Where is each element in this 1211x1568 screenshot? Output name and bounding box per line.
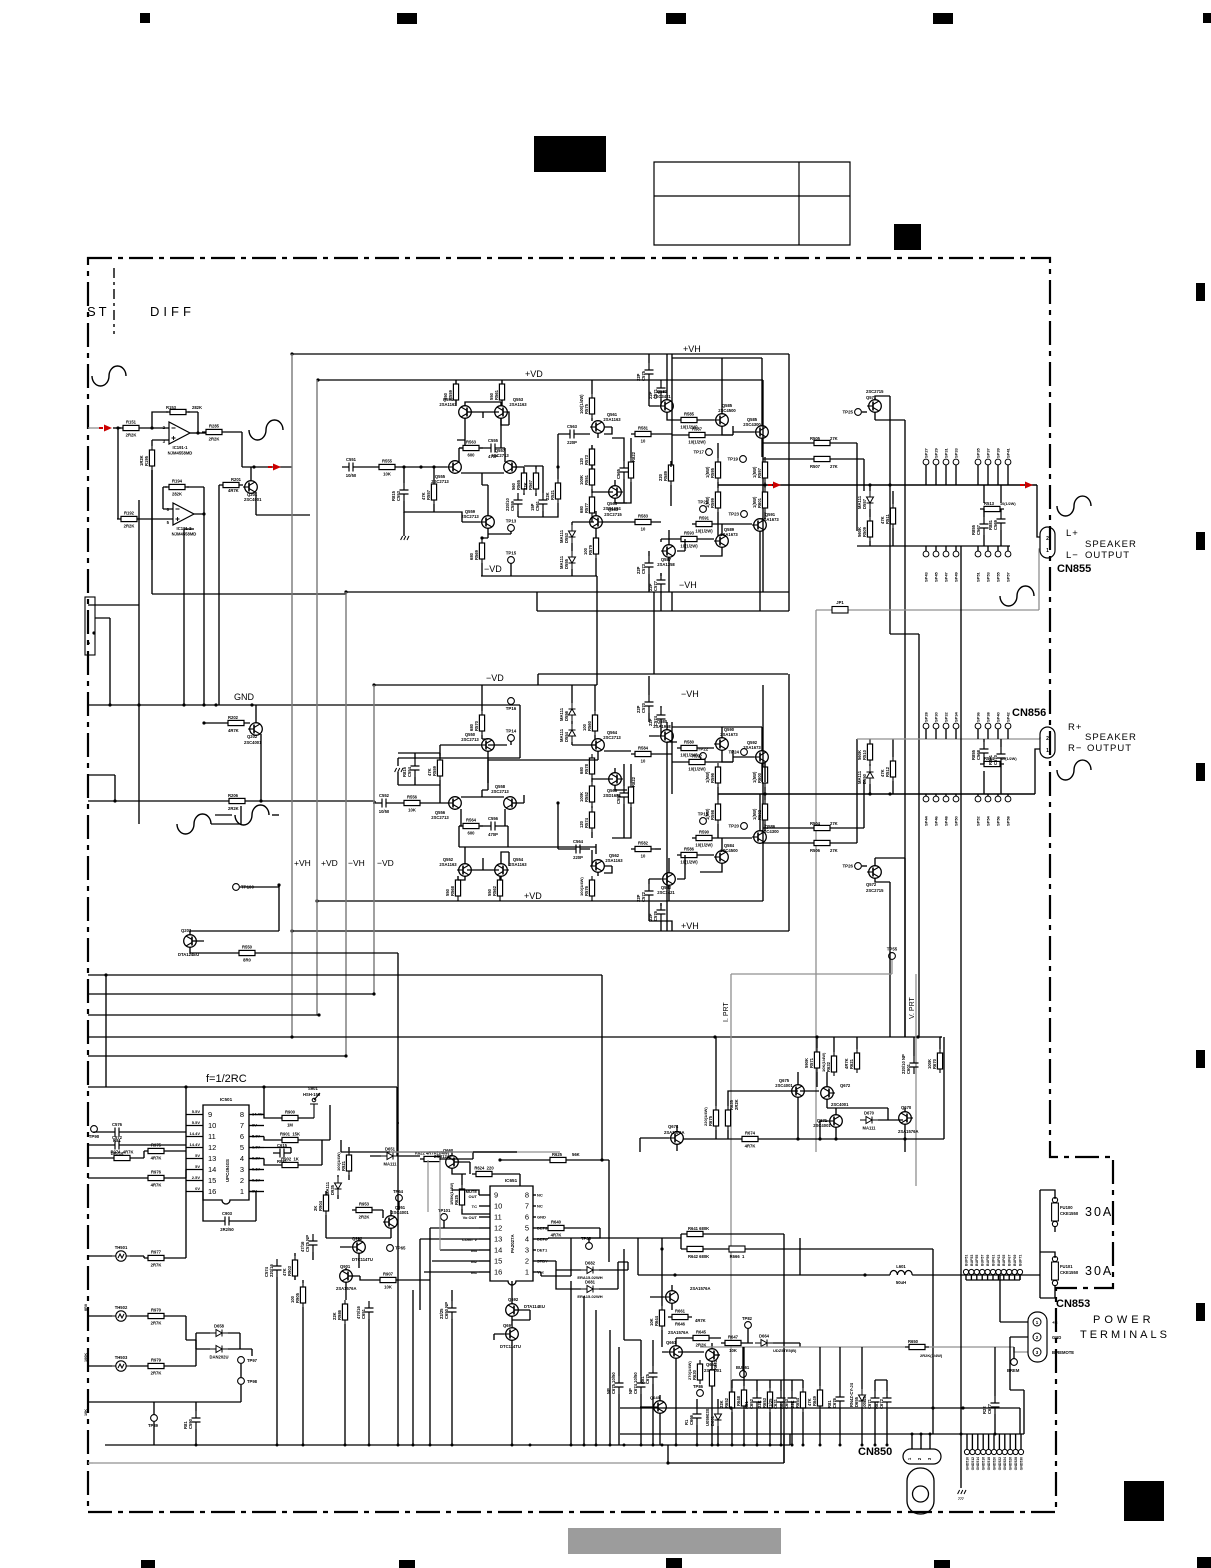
svg-text:R151: R151 (126, 420, 137, 425)
wire 975 drop (601, 975, 603, 1160)
svg-text:RN4Z-CY-J4: RN4Z-CY-J4 (849, 1382, 854, 1407)
svg-text:R587: R587 (692, 427, 703, 432)
svg-text:4R7K: 4R7K (151, 1156, 162, 1161)
wire C674 C675 (619, 1340, 653, 1445)
test point TP14 (508, 735, 515, 742)
diode D664 (755, 1340, 773, 1347)
svg-text:22/25: 22/25 (439, 1308, 444, 1319)
signal flow symbol below CN855 (1000, 586, 1034, 606)
wire R514 cluster (984, 739, 1001, 794)
svg-text:−VD: −VD (486, 673, 504, 683)
svg-text:100: 100 (583, 547, 588, 555)
svg-text:SP49: SP49 (954, 571, 959, 582)
grey wire pwm 1 (427, 1160, 429, 1212)
wire Q592 (733, 727, 762, 782)
L-amp +VH rail (292, 354, 789, 611)
svg-text:22K: 22K (790, 1400, 795, 1408)
svg-text:C553: C553 (396, 490, 401, 501)
connector CN850 body (903, 1449, 941, 1464)
wire pin6 loop (163, 487, 173, 509)
svg-text:D601: D601 (710, 1415, 715, 1426)
test point TP82 (745, 1322, 752, 1329)
svg-text:3: 3 (927, 1457, 932, 1460)
svg-text:R581: R581 (638, 426, 649, 431)
wire CN853 pin2 (1010, 1337, 1028, 1390)
svg-text:R953: R953 (359, 1202, 370, 1207)
svg-text:SP39: SP39 (996, 447, 1001, 458)
capacitor C903 (218, 1217, 236, 1226)
wire Q557 base (512, 467, 524, 475)
svg-text:1: 1 (525, 1268, 529, 1277)
svg-text:C556: C556 (616, 793, 621, 804)
svg-text:Vo OUT: Vo OUT (463, 1215, 478, 1220)
svg-text:220/10: 220/10 (505, 498, 510, 511)
transistor Q552 (457, 864, 471, 877)
resistor R506 (810, 840, 834, 845)
svg-text:MA111: MA111 (559, 728, 564, 742)
capacitor C574 (657, 708, 666, 726)
svg-text:R563: R563 (466, 440, 477, 445)
svg-text:10(1/2W): 10(1/2W) (1000, 502, 1016, 506)
svg-text:POWER: POWER (1093, 1314, 1155, 1326)
svg-text:FU101: FU101 (1060, 1264, 1073, 1269)
svg-text:TP19: TP19 (728, 457, 739, 462)
svg-text:NJM4558MD: NJM4558MD (168, 451, 193, 456)
transistor Q580 (659, 730, 673, 743)
resistor R576 (589, 876, 594, 900)
svg-text:D655: D655 (854, 1396, 859, 1407)
signal flow symbol input (92, 366, 126, 386)
capacitor C554 (411, 759, 420, 777)
wire 27k feeds (763, 443, 864, 531)
svg-text:15P: 15P (530, 503, 535, 511)
svg-text:UPC494GS: UPC494GS (225, 1159, 230, 1182)
wire fuse feed (1039, 1190, 1041, 1298)
svg-text:SP40: SP40 (996, 711, 1001, 722)
svg-text:TH502: TH502 (115, 1305, 128, 1310)
svg-text:BUF69: BUF69 (1013, 1255, 1017, 1266)
test point TP15 (508, 557, 515, 564)
wire TH502 (88, 1316, 186, 1340)
wire prot bottom row (683, 1037, 944, 1139)
svg-text:600: 600 (468, 831, 476, 836)
svg-text:Q691: Q691 (503, 1323, 514, 1328)
svg-text:12: 12 (208, 1143, 216, 1152)
svg-text:1R2K: 1R2K (139, 455, 144, 466)
wire TP82 (747, 1328, 749, 1343)
wire C590 (195, 1402, 197, 1445)
capacitor C675 (615, 1376, 624, 1394)
resistor R625 (459, 1185, 464, 1209)
resistor R556 (400, 800, 424, 805)
wire Q201 emitter (256, 492, 310, 515)
transistor Q663 (664, 1291, 678, 1304)
test point TP97 (238, 1357, 245, 1364)
wire cap column gap (653, 592, 655, 674)
svg-text:−VH: −VH (348, 858, 365, 868)
transistor Q556 (447, 797, 461, 810)
buffer pin header (963, 1269, 968, 1274)
svg-text:10K: 10K (729, 1348, 737, 1353)
wire R584 (604, 751, 672, 754)
wire Q202 (204, 705, 261, 801)
svg-text:10(1/2W): 10(1/2W) (680, 860, 698, 865)
svg-text:680: 680 (469, 552, 474, 560)
svg-text:L601: L601 (896, 1264, 906, 1269)
svg-text:R593: R593 (684, 531, 695, 536)
capacitor C672 (883, 1391, 892, 1409)
test point TP65 (387, 1245, 394, 1252)
svg-text:SP37: SP37 (986, 447, 991, 458)
svg-text:4R7K: 4R7K (228, 488, 239, 493)
transistor Q565 (609, 486, 623, 499)
grey I.PRT column (730, 974, 732, 1408)
svg-text:R570: R570 (474, 720, 479, 731)
svg-text:22K: 22K (523, 482, 528, 490)
svg-text:22K: 22K (719, 1400, 724, 1408)
capacitor C576 (657, 903, 666, 921)
svg-text:4R7K: 4R7K (228, 728, 239, 733)
svg-text:TP18: TP18 (698, 812, 709, 817)
svg-text:5.5V: 5.5V (192, 1120, 201, 1125)
svg-text:SP45: SP45 (934, 571, 939, 582)
svg-text:R979: R979 (151, 1358, 162, 1363)
capacitor C570b (997, 747, 1006, 765)
wire R645b (676, 1337, 721, 1339)
resistor R555 (375, 464, 399, 469)
svg-text:1: 1 (1046, 548, 1049, 554)
svg-text:4R7K: 4R7K (695, 1318, 706, 1323)
svg-text:GND514: GND514 (976, 1457, 980, 1470)
wire border y605 (88, 604, 139, 606)
signal flow symbol near CN855 (1057, 496, 1091, 516)
transistor Q582 (661, 873, 675, 886)
resistor R201 (219, 482, 243, 487)
wire vertical col 610 (609, 1330, 611, 1445)
L-amp lower rail (537, 592, 789, 611)
svg-text:R206: R206 (228, 793, 239, 798)
red flow arrow input (99, 425, 112, 432)
main output rail L (718, 484, 1037, 486)
svg-text:SP35: SP35 (976, 447, 981, 458)
power rail +VD column (316, 380, 318, 1015)
svg-text:TP24: TP24 (729, 750, 740, 755)
wire (672, 748, 733, 794)
wire R575 (591, 380, 593, 522)
svg-text:SP57: SP57 (1006, 571, 1011, 582)
svg-text:BUF63: BUF63 (997, 1255, 1001, 1266)
svg-text:4: 4 (240, 1154, 244, 1163)
svg-text:SP46: SP46 (934, 815, 939, 826)
svg-text:R507: R507 (810, 464, 821, 469)
svg-text:8: 8 (525, 1191, 529, 1200)
resistor R600 (762, 763, 767, 787)
wire (649, 879, 672, 931)
svg-text:100(1/4W): 100(1/4W) (579, 394, 584, 414)
svg-text:10K: 10K (383, 472, 391, 477)
wire (701, 358, 733, 435)
resistor R625b (546, 1157, 570, 1162)
svg-text:SP47: SP47 (944, 571, 949, 582)
svg-text:R650: R650 (908, 1339, 919, 1344)
diode D601 (715, 1408, 722, 1426)
wire (592, 866, 612, 901)
svg-text:R506: R506 (810, 848, 821, 853)
svg-text:2SC2715: 2SC2715 (866, 389, 884, 394)
resistor R822 (628, 458, 633, 482)
svg-text:C903: C903 (222, 1211, 233, 1216)
transistor Q555 (447, 461, 461, 474)
connector stub left edge (85, 597, 95, 655)
capacitor C675b (649, 1366, 658, 1384)
svg-text:30A: 30A (1085, 1264, 1113, 1278)
resistor R597 (762, 458, 767, 482)
wire Q565 (592, 480, 627, 503)
resistor R907 (376, 1277, 400, 1282)
wire Q672 (798, 1072, 827, 1139)
wire vertical col 341 (341, 1140, 517, 1152)
svg-text:R595: R595 (710, 467, 715, 478)
wire Q585b (733, 358, 762, 457)
svg-text:R559: R559 (432, 765, 437, 776)
svg-text:TP20: TP20 (729, 824, 740, 829)
resistor R591 (692, 521, 716, 526)
capacitor C577 (657, 573, 666, 591)
wire (398, 753, 440, 803)
svg-text:D553: D553 (564, 532, 569, 543)
svg-text:10: 10 (641, 854, 646, 859)
svg-text:10K: 10K (408, 808, 416, 813)
wire sensor rows (88, 1132, 186, 1178)
svg-text:470/16: 470/16 (356, 1306, 361, 1319)
svg-text:16: 16 (494, 1268, 502, 1277)
capacitor C556b (484, 822, 502, 831)
svg-text:R670: R670 (932, 1058, 937, 1069)
resistor R574 (589, 808, 594, 832)
inductor L601 (890, 1271, 912, 1276)
svg-text:TC: TC (472, 1204, 477, 1209)
resistor R550b (235, 950, 259, 955)
svg-text:C551: C551 (346, 457, 357, 462)
svg-text:2SC4001: 2SC4001 (244, 497, 262, 502)
wire vertical col 413 (412, 1290, 414, 1445)
svg-text:Q672: Q672 (840, 1083, 851, 1088)
fuse FU100 (1052, 1197, 1059, 1226)
svg-text:GND522: GND522 (998, 1457, 1002, 1470)
wire R582 (631, 848, 661, 850)
wire Q563 (572, 511, 596, 540)
wire (326, 1147, 349, 1238)
wire R648 (743, 1347, 745, 1445)
resistor R976 (144, 1175, 168, 1180)
svg-text:1: 1 (1036, 1320, 1039, 1325)
svg-text:TP26: TP26 (843, 864, 854, 869)
svg-text:SP38: SP38 (986, 711, 991, 722)
svg-text:100K: 100K (579, 475, 584, 485)
svg-text:10: 10 (641, 527, 646, 532)
svg-text:R585: R585 (684, 412, 695, 417)
svg-text:C676: C676 (832, 1397, 837, 1408)
wire R625b row (500, 1160, 609, 1262)
svg-text:R521: R521 (550, 489, 555, 500)
svg-text:R555: R555 (382, 459, 393, 464)
wire s901 feed (396, 1087, 398, 1156)
wire C563 (558, 427, 612, 467)
wire R513 cluster (984, 485, 1001, 546)
svg-text:282K: 282K (172, 492, 182, 497)
svg-text:550: 550 (489, 392, 494, 400)
svg-text:R−: R− (1068, 743, 1082, 754)
test point TP20 (741, 823, 748, 830)
bus junction dots (195, 1444, 198, 1447)
svg-text:560K: 560K (857, 527, 862, 537)
speaker jumpers SP44 SP46 SP48 SP50 (923, 796, 929, 802)
speaker jumpers SP43 SP45 SP47 SP49 (923, 551, 929, 557)
svg-text:R647: R647 (728, 1335, 739, 1340)
svg-text:TP82: TP82 (742, 1316, 753, 1321)
registration mark right 3 (1196, 763, 1205, 781)
wire input line (113, 427, 121, 429)
wire diodes R (571, 685, 573, 745)
resistor R564 (459, 823, 483, 828)
svg-text:C559: C559 (510, 500, 515, 511)
svg-text:C570: C570 (641, 702, 646, 713)
diode D682 (581, 1267, 599, 1274)
capacitor C556r (620, 786, 629, 804)
wire fb2 (272, 814, 279, 816)
wire fb1 (211, 806, 241, 824)
svg-text:R504: R504 (810, 821, 821, 826)
svg-text:R645: R645 (696, 1330, 707, 1335)
registration mark right 2 (1196, 532, 1205, 550)
svg-text:R201: R201 (231, 477, 242, 482)
wire R201 left (218, 485, 220, 705)
wire D670 Q670 (848, 1108, 905, 1139)
svg-text:220/10 NP: 220/10 NP (901, 1054, 906, 1074)
resistor R649 (817, 1386, 822, 1410)
svg-text:2: 2 (1046, 536, 1049, 542)
wire D601 gnd link (667, 1445, 669, 1463)
svg-text:10: 10 (494, 1202, 502, 1211)
transistor Q672 (821, 1087, 835, 1100)
svg-text:R577: R577 (584, 502, 589, 513)
wire Q901 R907 (346, 1268, 430, 1300)
resistor R593 (677, 536, 701, 541)
svg-text:2R2K(1/4W): 2R2K(1/4W) (920, 1353, 943, 1358)
wire diff emitters (459, 461, 505, 485)
test point BREM (1011, 1359, 1018, 1366)
resistor R153 (166, 409, 190, 414)
svg-text:TP13: TP13 (506, 519, 517, 524)
wire TP85 (585, 1228, 600, 1242)
wire TP100 (240, 885, 279, 887)
svg-text:1(5W): 1(5W) (705, 466, 710, 478)
svg-text:100: 100 (582, 723, 587, 731)
wire vertical col 624 (624, 1249, 641, 1340)
wire mirror collectors (457, 418, 501, 448)
jumper JP1 (832, 607, 848, 614)
wire D557 chain (869, 485, 871, 546)
wire R579 (595, 558, 597, 576)
svg-text:C572: C572 (112, 1135, 123, 1140)
resistor R666 (729, 1246, 745, 1252)
test point TP19 (740, 456, 747, 463)
svg-text:C574: C574 (264, 1266, 269, 1277)
svg-text:BUF61: BUF61 (991, 1255, 995, 1266)
wire (649, 676, 661, 736)
svg-text:−VH: −VH (681, 689, 699, 699)
svg-text:100K: 100K (84, 1353, 88, 1362)
resistor R640 (544, 1225, 568, 1230)
wire Q992 (340, 1238, 359, 1268)
resistor R675 (713, 1106, 718, 1130)
wire Q692 (512, 1281, 530, 1326)
svg-text:R641 680K: R641 680K (688, 1226, 709, 1231)
svg-text:CN850: CN850 (858, 1446, 892, 1458)
resistor R521 (555, 479, 560, 503)
wire ic501 feed right (263, 1087, 265, 1115)
wire long vertical C (799, 1238, 801, 1275)
resistor R504 (810, 825, 834, 830)
wire diodes (571, 522, 573, 576)
svg-text:680: 680 (579, 766, 584, 774)
svg-text:1: 1 (1046, 748, 1049, 754)
ground pin header (964, 1449, 969, 1454)
svg-text:SP56: SP56 (996, 815, 1001, 826)
transistor Q202 (248, 723, 262, 736)
resistor R921 (346, 1151, 351, 1175)
svg-text:SP33: SP33 (954, 447, 959, 458)
svg-text:2SC2713: 2SC2713 (461, 737, 479, 742)
svg-text:R822: R822 (631, 776, 636, 787)
transistor Q553 (495, 406, 509, 419)
test point TP55 (889, 953, 896, 960)
svg-text:C575: C575 (641, 370, 646, 381)
svg-text:R567: R567 (528, 479, 533, 490)
svg-text:BUF59: BUF59 (986, 1255, 990, 1266)
wire BUF61 (742, 1347, 744, 1371)
IC501 body (203, 1105, 249, 1204)
wire (459, 826, 508, 847)
resistor R599 (715, 488, 720, 512)
svg-text:C568: C568 (976, 749, 981, 760)
svg-text:100/16: 100/16 (862, 1396, 867, 1409)
resistor R970 (144, 1313, 168, 1318)
wire Q571 leads (875, 396, 905, 1037)
diode D550 (867, 766, 874, 784)
svg-text:NC: NC (537, 1204, 543, 1209)
transistor Q203 (184, 935, 198, 948)
svg-text:2R2K: 2R2K (124, 524, 135, 529)
svg-text:2SB1243: 2SB1243 (434, 1154, 452, 1159)
test point TP16 (508, 698, 515, 705)
svg-text:100: 100 (290, 1295, 295, 1303)
svg-text:5: 5 (240, 1143, 244, 1152)
capacitor C677 (991, 1396, 1000, 1414)
svg-text:TP97: TP97 (247, 1358, 258, 1363)
svg-text:R654: R654 (795, 1397, 800, 1408)
svg-text:47K: 47K (421, 492, 426, 500)
svg-text:7: 7 (240, 1121, 244, 1130)
test point TP21 (700, 506, 707, 513)
svg-text:1(5W): 1(5W) (752, 496, 757, 508)
svg-text:R674: R674 (745, 1131, 756, 1136)
svg-text:D935: D935 (330, 1184, 335, 1195)
svg-text:5: 5 (167, 520, 170, 525)
resistor R648 (741, 1386, 746, 1410)
wire left col A (138, 500, 140, 824)
wire diff R (461, 790, 524, 826)
